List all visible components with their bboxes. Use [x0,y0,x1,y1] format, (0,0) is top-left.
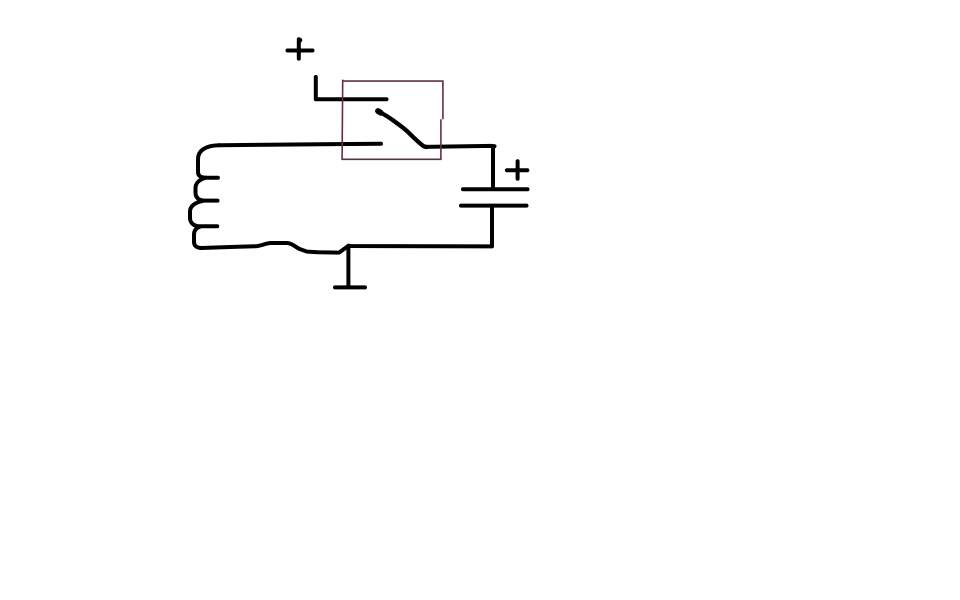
capacitor C1 top plate [463,187,528,191]
switch enclosure highlight box (red) [342,80,443,160]
inductor L1 [190,145,219,248]
plus polarity mark (supply +) [288,38,313,59]
ground stem wire [346,247,350,287]
wire from inductor top to switch left contact [219,144,381,146]
wire from + supply down and right to switch top contact [316,77,387,99]
wire from capacitor bottom down and left to ground node [349,207,493,246]
plus polarity mark (capacitor +) [507,161,527,179]
switch S1 arm [378,111,427,147]
wire from inductor bottom to ground node (hand-drawn squiggle) [202,243,349,253]
capacitor C1 bottom plate [461,204,527,208]
wire from switch right contact to capacitor top [425,146,495,189]
ground symbol bar [335,285,365,289]
